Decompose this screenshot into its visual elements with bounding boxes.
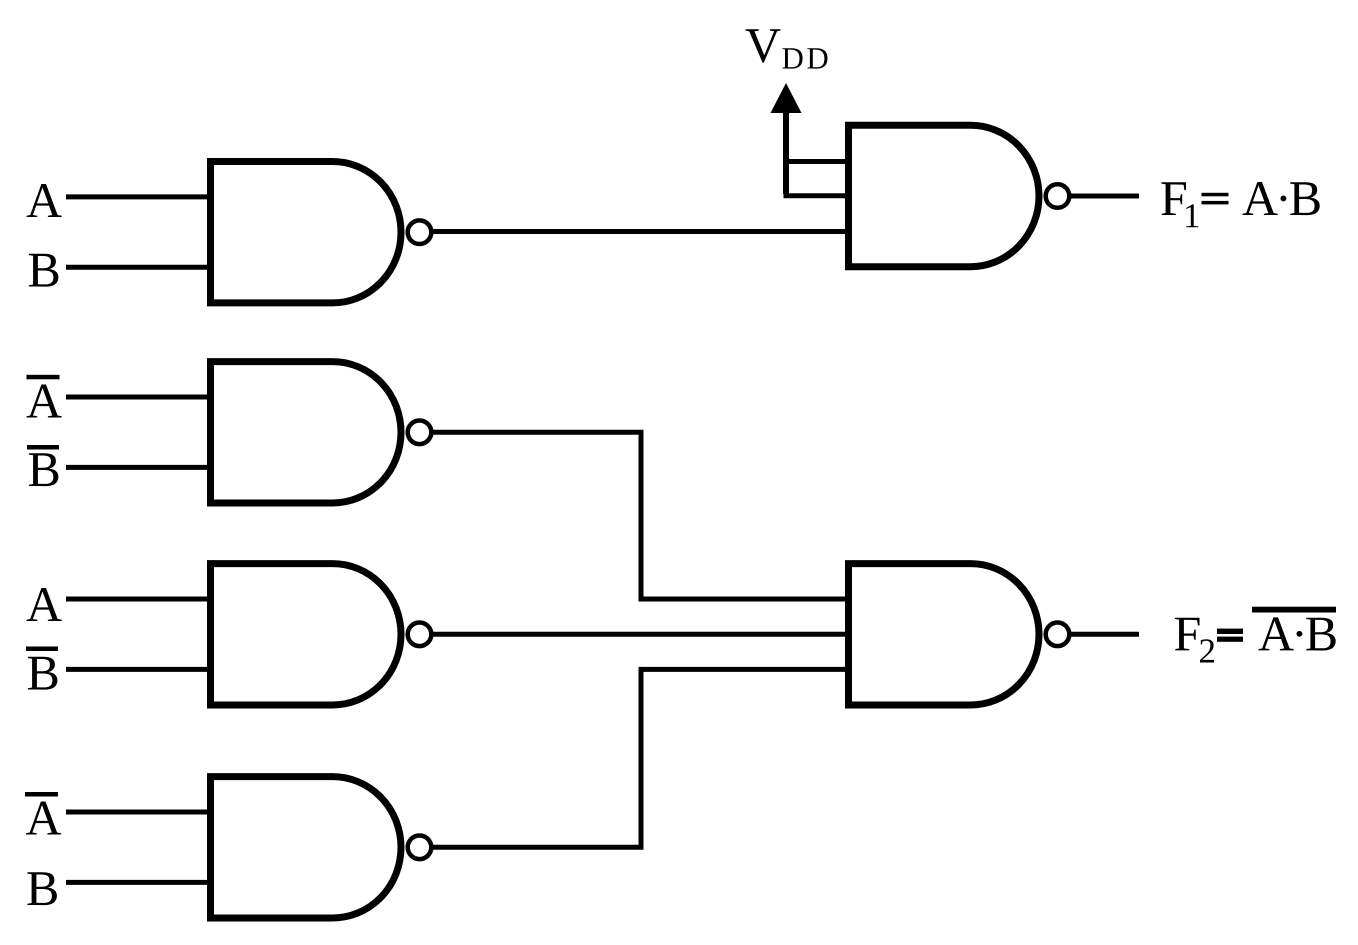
wire: input A to U1 — [66, 194, 212, 199]
label: output F1 = A·B — [1161, 182, 1319, 227]
wire: U5 output F1 — [1069, 194, 1139, 199]
label: input A of U3 — [27, 588, 62, 621]
wire: VDD to U5 input 2 — [784, 193, 851, 198]
NAND gate U4 (inputs A-bar,B) — [211, 777, 432, 918]
label: input B of U1 — [29, 254, 59, 287]
label: output F2 = A·B overline — [1175, 607, 1336, 663]
wire: U3 output to U6 input 2 — [433, 632, 850, 637]
wire: input A-bar to U4 — [66, 810, 212, 815]
wire: input B-bar to U3 — [66, 667, 212, 672]
wire: U2 output to U6 input 1 — [433, 432, 850, 599]
NAND gate U6 (3-input, output F2) — [849, 564, 1070, 705]
NAND gate U2 (inputs A-bar,B-bar) — [211, 362, 432, 503]
wire: input B to U4 — [66, 880, 212, 885]
NAND gate U3 (inputs A,B-bar) — [211, 564, 432, 705]
power VDD arrow symbol — [771, 83, 802, 194]
wire: input A to U3 — [66, 597, 212, 602]
wire: U6 output F2 — [1069, 632, 1139, 637]
wire: VDD to U5 input 1 — [784, 159, 851, 164]
label: input B of U4 — [27, 872, 57, 905]
label: input A-bar of U4 — [25, 792, 61, 835]
wire: input A-bar to U2 — [66, 395, 212, 400]
wire: input B to U1 — [66, 265, 212, 270]
wire: U4 output to U6 input 3 — [433, 669, 850, 847]
label: input B-bar of U2 — [27, 445, 59, 486]
label: VDD — [746, 29, 828, 68]
wire: U1 output to U5 input 3 — [433, 229, 850, 234]
label: input A of U1 — [27, 184, 62, 217]
NAND gate U1 (inputs A,B) — [211, 162, 432, 303]
NAND gate U5 (3-input, output F1) — [849, 125, 1070, 266]
wire: input B-bar to U2 — [66, 465, 212, 470]
label: input A-bar of U2 — [27, 375, 62, 418]
label: input B-bar of U3 — [26, 647, 58, 690]
